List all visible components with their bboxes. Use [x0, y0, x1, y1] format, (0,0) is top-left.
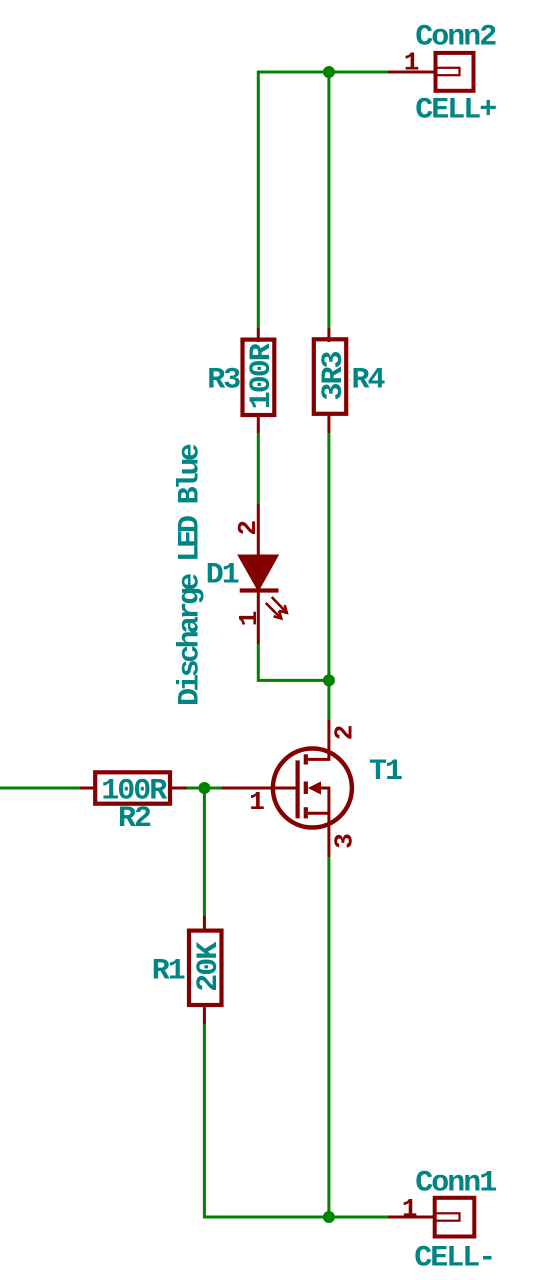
wire LED to drain node [258, 644, 329, 680]
svg-text:R2: R2 [118, 802, 151, 836]
svg-text:3R3: 3R3 [317, 352, 351, 401]
svg-text:Discharge LED Blue: Discharge LED Blue [174, 444, 208, 706]
svg-text:1: 1 [249, 787, 264, 817]
wire gate input from left edge [0, 787, 79, 790]
svg-text:100R: 100R [245, 343, 279, 409]
connector Conn1 [388, 1194, 474, 1237]
wire right branch down from top rail to R4 [327, 72, 330, 328]
D1 anode pin [257, 504, 260, 556]
D1 light arrow lower [266, 603, 281, 618]
T1 source pin [308, 813, 329, 857]
D1 cathode bar [240, 588, 279, 592]
D1 light arrow upper [272, 597, 287, 613]
Conn2 pin tab [436, 68, 460, 75]
D1 cathode pin [257, 591, 260, 645]
Conn1 pin 1 lead [388, 1216, 435, 1219]
T1 channel top segment [304, 754, 308, 764]
T1 body lead [321, 788, 329, 813]
svg-text:2: 2 [329, 725, 359, 740]
resistor R1 [189, 916, 222, 1024]
svg-text:3: 3 [329, 834, 359, 849]
T1 body circle [273, 749, 352, 828]
wire R2 to gate node [187, 787, 222, 790]
svg-text:Conn1: Conn1 [415, 1167, 496, 1201]
T1 channel middle segment [304, 782, 308, 795]
T1 gate bar [296, 760, 300, 818]
resistor R3 [243, 328, 275, 433]
svg-text:CELL+: CELL+ [415, 94, 496, 128]
wire gate node down to R1 [203, 788, 206, 916]
junction bottom rail [323, 1211, 335, 1223]
resistor R4 [314, 328, 346, 433]
wire left branch down from top rail to R3 [257, 71, 260, 329]
wire top horizontal CELL+ rail [258, 71, 388, 74]
svg-text:D1: D1 [206, 559, 239, 593]
wire R1 down to bottom rail [204, 1024, 388, 1217]
wire R3 to LED [257, 433, 260, 504]
wire T1 source down to bottom rail [327, 857, 330, 1217]
T1 body arrow [308, 781, 321, 794]
Conn2 pin 1 lead [388, 71, 436, 74]
svg-text:T1: T1 [369, 755, 402, 789]
junction gate node [198, 782, 210, 794]
svg-text:CELL-: CELL- [414, 1242, 494, 1276]
T1 drain pin [308, 719, 329, 759]
T1 channel bottom segment [304, 807, 308, 818]
svg-text:20K: 20K [192, 942, 226, 992]
svg-text:2: 2 [233, 521, 263, 536]
svg-text:R1: R1 [152, 954, 185, 988]
junction drain node [323, 674, 335, 686]
svg-text:Conn2: Conn2 [415, 21, 496, 55]
Conn2 body [436, 53, 474, 91]
D1 triangle body [238, 555, 278, 590]
svg-text:1: 1 [234, 611, 264, 626]
transistor T1 [222, 719, 359, 857]
resistor R2 [79, 772, 187, 803]
Conn1 pin tab [435, 1213, 460, 1220]
svg-text:R3: R3 [207, 364, 240, 398]
svg-text:R4: R4 [351, 364, 385, 398]
connector Conn2 [388, 48, 474, 91]
wire R4 down to drain node and on to T1 drain [327, 433, 330, 719]
T1 gate pin [222, 787, 296, 790]
Conn1 body [435, 1198, 475, 1237]
junction top rail [323, 66, 335, 78]
LED D1 [233, 504, 287, 644]
